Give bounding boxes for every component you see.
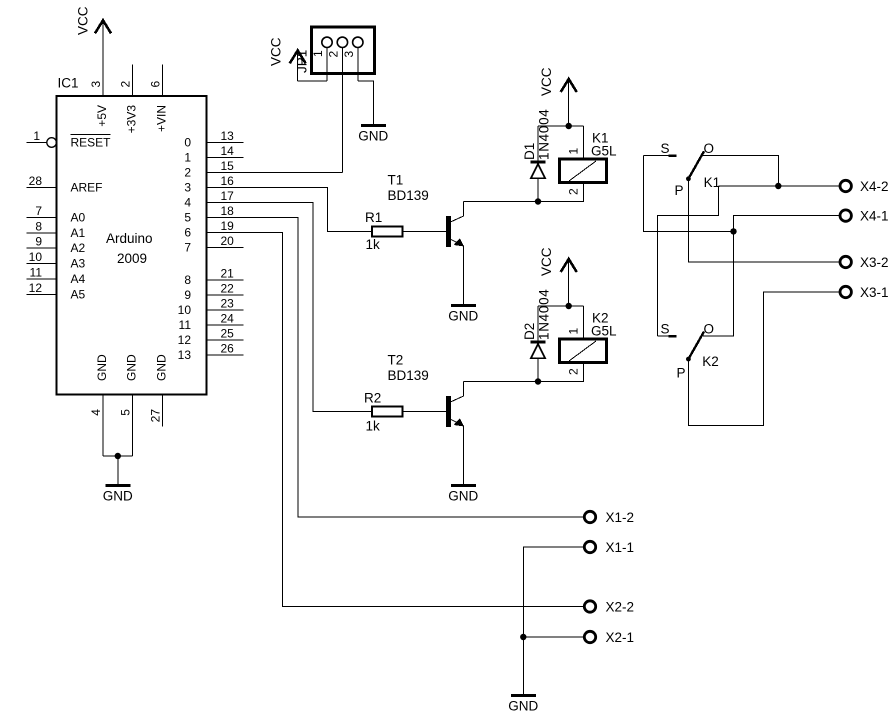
svg-text:VCC: VCC [539,67,554,96]
svg-text:X2-1: X2-1 [606,630,635,645]
svg-text:22: 22 [221,282,235,296]
IC1 pin 27 GND bottom stub [148,354,168,427]
IC1 pin 20 (7) [184,234,243,255]
VCC symbol at K1 [539,67,577,126]
svg-text:5: 5 [119,409,133,416]
diode D2 1N4004 [522,289,552,382]
IC1 pin 3 +5V top [89,22,109,127]
connector X2-1 [584,630,634,645]
wire JP1 pin2 to IC pin15 [207,172,343,174]
wire T2 collector to K2 coil [463,363,583,382]
diode D1 1N4004 [522,109,552,202]
JP1 pin 1 [311,37,332,81]
wire IC pin19 to X2-2 [207,233,584,607]
JP1 pin 3 [342,37,363,81]
svg-text:4: 4 [89,409,103,416]
switch K2 lever and pivot P [677,321,719,380]
connector X4-2 [840,179,889,194]
svg-text:X1-2: X1-2 [606,510,635,525]
svg-text:1: 1 [567,328,581,335]
svg-text:A4: A4 [71,272,86,286]
svg-text:1N4004: 1N4004 [537,109,552,161]
wire R2 to T2 base [403,411,447,413]
wire K1 P to X3-2 [688,179,838,262]
svg-text:1: 1 [184,151,191,165]
IC1 pin 19 (6) [184,219,243,240]
IC1 pin 5 GND bottom [119,354,139,456]
svg-text:3: 3 [184,181,191,195]
svg-text:R1: R1 [365,210,382,225]
svg-text:X4-1: X4-1 [860,208,889,223]
svg-text:GND: GND [154,354,168,381]
svg-text:X2-2: X2-2 [606,599,635,614]
svg-text:21: 21 [221,267,235,281]
svg-text:10: 10 [29,250,43,264]
wire X4-1 row [703,216,839,336]
svg-text:4: 4 [184,196,191,210]
wire IC pin17 to R2 [207,203,373,412]
JP1 pin 2 [326,37,347,172]
svg-text:G5L: G5L [591,323,617,338]
svg-text:23: 23 [221,297,235,311]
junction dot X4-2 [775,183,781,189]
junction dot pins 4/5 [115,453,121,459]
wire D1 to K1 pin1 (VCC rail) [538,125,584,127]
jumper header JP1 [295,27,375,74]
VCC symbol at JP1 [269,37,306,81]
svg-text:A5: A5 [71,288,86,302]
junction dot X4-1 net [730,228,736,234]
svg-text:1: 1 [311,50,325,57]
svg-text:13: 13 [221,129,235,143]
svg-text:VCC: VCC [76,6,91,35]
IC1 pin 15 (2) [184,159,243,180]
svg-text:2: 2 [119,81,133,88]
connector X3-1 [840,285,889,300]
wire X4-2 row [718,185,838,187]
svg-text:1k: 1k [366,419,381,434]
wire X2-1 to ground rail [523,636,583,638]
svg-text:VCC: VCC [539,247,554,276]
svg-text:25: 25 [221,327,235,341]
svg-text:X4-2: X4-2 [860,179,889,194]
wire JP1 pin1 to VCC [298,80,327,82]
junction dot VCC K2 [566,303,572,309]
svg-text:GND: GND [448,488,478,503]
svg-text:7: 7 [35,204,42,218]
svg-text:G5L: G5L [591,143,617,158]
wire pin4-pin5 join [103,455,133,457]
svg-text:15: 15 [221,159,235,173]
svg-text:X3-2: X3-2 [860,255,889,270]
svg-text:2: 2 [326,51,340,58]
transistor T2 BD139 [388,353,464,486]
svg-text:GND: GND [95,354,109,381]
IC1 pin 12 A5 [27,281,86,302]
svg-text:9: 9 [35,235,42,249]
wire K1 S to X4-1 net [643,156,733,232]
svg-text:GND: GND [103,489,133,504]
switch K2 S contact [658,321,677,336]
svg-text:BD139: BD139 [388,368,429,383]
IC1 pin 22 (9) [184,282,243,303]
relay coil K1 G5L [560,126,618,195]
svg-text:8: 8 [184,273,191,287]
wire D2 to K2 pin1 (VCC rail) [538,305,584,307]
VCC symbol at K2 [539,247,577,306]
svg-text:10: 10 [178,303,192,317]
connector X4-1 [840,208,889,223]
svg-text:11: 11 [179,318,192,332]
IC1 Arduino box [57,76,207,395]
svg-text:+5V: +5V [95,105,109,127]
junction dot ground rail [520,634,526,640]
svg-text:16: 16 [221,174,235,188]
svg-text:17: 17 [221,189,235,203]
connector X2-2 [584,599,634,614]
svg-text:9: 9 [184,288,191,302]
svg-text:28: 28 [29,174,43,188]
svg-text:18: 18 [221,204,235,218]
svg-text:7: 7 [184,241,191,255]
svg-text:P: P [677,366,686,381]
svg-text:P: P [675,183,684,198]
wire JP1 pin3 to GND [358,81,374,125]
svg-text:12: 12 [29,281,43,295]
IC1 pin 21 (8) [184,267,243,288]
wire X4-2 to K2 S [658,186,719,336]
svg-text:VCC: VCC [269,37,284,66]
svg-text:2: 2 [567,188,581,195]
svg-text:3: 3 [89,81,103,88]
svg-text:1N4004: 1N4004 [537,289,552,341]
IC1 pin 23 (10) [178,297,244,318]
svg-text:2009: 2009 [117,251,147,266]
svg-text:D1: D1 [522,143,537,160]
svg-text:AREF: AREF [71,181,103,195]
wire X1-1 to ground rail [523,547,583,695]
junction dot VCC K1 [566,123,572,129]
ground below IC [103,486,133,504]
svg-text:24: 24 [221,312,235,326]
svg-text:T1: T1 [388,173,404,188]
svg-text:D2: D2 [522,323,537,340]
svg-text:X3-1: X3-1 [860,285,889,300]
ground at T2 emitter [448,485,478,503]
resistor R2 [364,391,403,434]
svg-text:GND: GND [358,129,388,144]
IC1 pin 8 A1 [27,220,86,241]
IC1 pin 28 AREF [27,174,103,195]
wire IC pin18 to X1-2 [207,218,584,518]
svg-text:A1: A1 [71,226,86,240]
IC1 pin 24 (11) [179,312,244,333]
svg-text:A0: A0 [71,211,86,225]
svg-text:0: 0 [184,136,191,150]
svg-text:A2: A2 [71,241,86,255]
IC1 pin 17 (4) [184,189,243,210]
switch K1 lever and pivot P [675,141,721,198]
svg-text:GND: GND [125,354,139,381]
svg-text:S: S [661,321,670,336]
junction dot D2 anode [535,378,541,384]
relay coil K2 G5L [560,306,618,375]
IC1 pin 9 A2 [27,235,86,256]
IC1 pin 6 +VIN top [148,65,168,133]
svg-text:GND: GND [448,308,478,323]
svg-text:19: 19 [221,219,235,233]
IC1 pin 2 +3V3 top [119,65,139,134]
svg-text:RESET: RESET [71,136,112,150]
IC1 pin 26 (13) [178,342,244,363]
svg-text:1: 1 [567,148,581,155]
ground bottom [508,696,538,714]
wire T1 collector to K1 coil [463,183,583,202]
svg-text:6: 6 [184,226,191,240]
svg-text:Arduino: Arduino [106,231,153,246]
svg-text:13: 13 [178,348,192,362]
svg-text:S: S [661,141,670,156]
svg-text:2: 2 [567,368,581,375]
IC1 pin 10 A3 [27,250,86,271]
IC1 pin 11 A4 [27,266,86,287]
svg-text:11: 11 [30,266,43,280]
svg-text:T2: T2 [388,353,404,368]
svg-text:1: 1 [33,129,40,143]
ground at JP1 [358,126,388,144]
svg-text:2: 2 [184,166,191,180]
svg-text:R2: R2 [364,391,381,406]
svg-text:26: 26 [221,342,235,356]
svg-text:GND: GND [508,699,538,714]
IC1 pin 13 (0) [184,129,243,150]
svg-text:O: O [704,321,715,336]
switch K1 S contact [643,141,676,156]
svg-text:BD139: BD139 [388,188,429,203]
svg-text:O: O [704,141,715,156]
IC1 pin 1 RESET [27,129,112,150]
svg-text:6: 6 [148,81,162,88]
svg-text:+3V3: +3V3 [125,105,139,134]
IC1 pin 7 A0 [27,204,86,225]
svg-text:20: 20 [221,234,235,248]
ground at T1 emitter [448,305,478,323]
svg-text:27: 27 [148,409,162,423]
svg-text:8: 8 [35,220,42,234]
svg-text:A3: A3 [71,257,86,271]
IC1 pin 4 GND bottom [89,354,109,456]
svg-text:IC1: IC1 [58,76,79,91]
wire IC pin16 to R1 [207,188,373,232]
junction dot D1 anode [535,198,541,204]
IC1 pin 25 (12) [178,327,244,348]
VCC symbol top-left [76,6,112,35]
wire R1 to T1 base [403,231,447,233]
resistor R1 [365,210,403,252]
IC1 pin 16 (3) [184,174,243,195]
IC1 pin 18 (5) [184,204,243,225]
connector X1-1 [584,540,634,555]
wire K1 O to X4-2 [703,156,778,186]
svg-text:K1: K1 [704,175,721,190]
svg-text:12: 12 [178,333,192,347]
svg-text:3: 3 [342,51,356,58]
svg-text:5: 5 [184,211,191,225]
wire K2 P to X3-1 [688,292,838,425]
svg-text:1k: 1k [366,237,381,252]
IC1 pin 14 (1) [184,144,243,165]
connector X1-2 [584,510,634,525]
svg-text:X1-1: X1-1 [606,540,635,555]
connector X3-2 [840,255,889,270]
wire to GND below IC [117,456,119,486]
svg-text:14: 14 [221,144,235,158]
svg-text:+VIN: +VIN [154,105,168,132]
svg-text:K2: K2 [702,354,719,369]
transistor T1 BD139 [388,173,464,306]
